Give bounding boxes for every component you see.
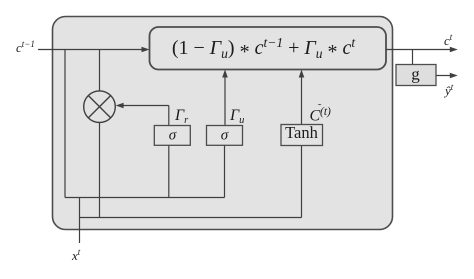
multiply circle node bbox=[84, 91, 116, 123]
sigma box 2 (Gamma_u) bbox=[207, 126, 243, 146]
svg-text:g: g bbox=[411, 65, 420, 84]
wire: c(t) output horizontal (arrow right) bbox=[386, 49, 454, 51]
svg-text:xt: xt bbox=[71, 247, 81, 263]
wire: sigma1 bottom to bus1 bbox=[168, 146, 170, 198]
formula box U1 bbox=[150, 27, 387, 70]
wire: c(t-1) input horizontal line bbox=[38, 49, 146, 51]
wire: x(t) vertical input bbox=[79, 198, 81, 244]
svg-text:Tanh: Tanh bbox=[285, 123, 319, 142]
wire: branch down to g box bbox=[412, 50, 414, 65]
wire: bus1 horizontal bbox=[65, 197, 225, 199]
wire: vertical from c(t-1) line down to multiply circle top bbox=[99, 50, 101, 92]
wire: sigma2 bottom to bus1 bbox=[224, 146, 226, 198]
svg-text:(t): (t) bbox=[320, 106, 331, 118]
svg-text:σ: σ bbox=[169, 128, 177, 144]
svg-text:ŷt: ŷt bbox=[443, 82, 454, 98]
svg-text:ct: ct bbox=[444, 32, 453, 48]
arrowhead into formula box bbox=[142, 47, 150, 53]
wire: sigma2 output up to formula box (arrow up) bbox=[224, 73, 226, 126]
sigma box 1 (Gamma_r) bbox=[154, 126, 190, 146]
wire: tanh bottom to bus2 bbox=[301, 146, 303, 218]
wire: branch down at x=65 from c(t-1) line to bus1 bbox=[64, 50, 66, 198]
tanh box bbox=[281, 125, 323, 146]
wire: bus2 horizontal bbox=[80, 217, 302, 219]
wire: multiply circle output down to bus2 bbox=[99, 123, 101, 219]
wire: vertical from r-arrow down into sigma box 1 top bbox=[168, 106, 170, 126]
wire: g output horizontal (arrow right) bbox=[436, 75, 454, 77]
GRU cell outer box bbox=[53, 17, 393, 230]
svg-text:σ: σ bbox=[221, 128, 229, 144]
g box (output activation) bbox=[396, 65, 436, 86]
svg-text:ct−1: ct−1 bbox=[16, 39, 35, 55]
wire: tanh output up to formula box (arrow up) bbox=[301, 73, 303, 125]
wire: gate r output to multiply circle (arrow left) bbox=[119, 105, 169, 107]
